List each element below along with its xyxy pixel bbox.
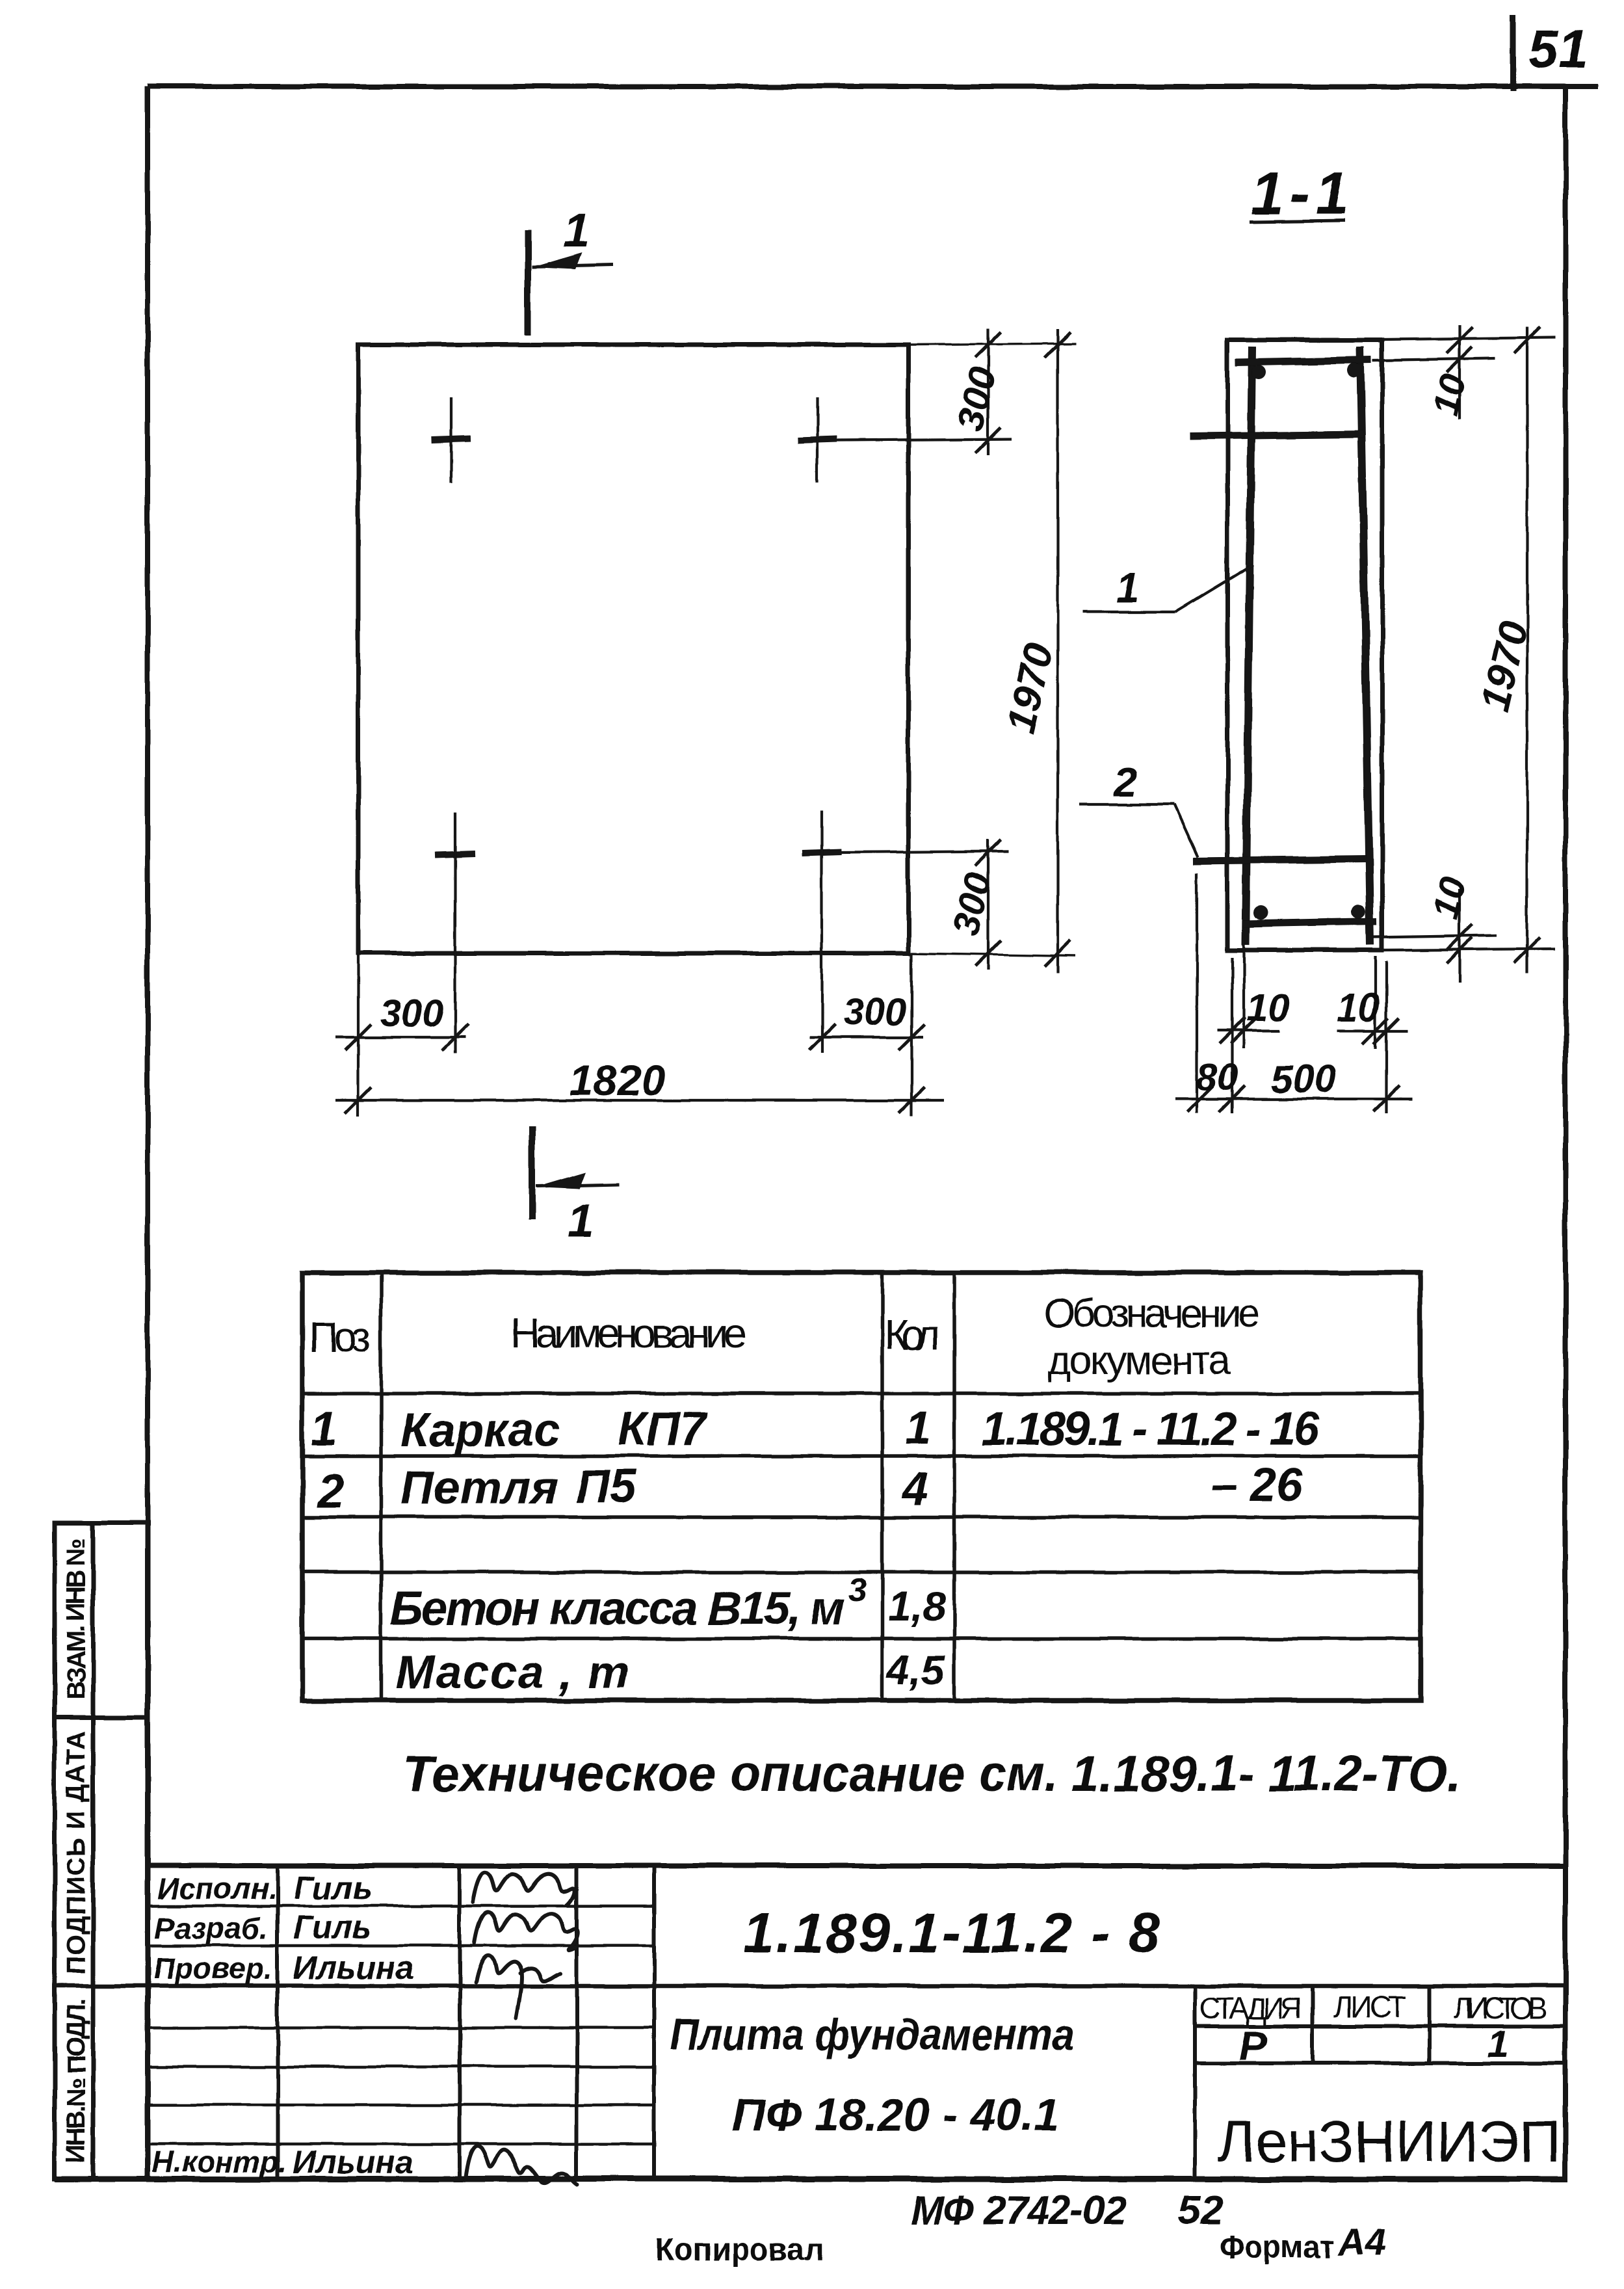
svg-text:Масса , m: Масса , m — [395, 1647, 629, 1699]
svg-text:ИНВ.№ ПОДЛ.: ИНВ.№ ПОДЛ. — [62, 1999, 90, 2163]
svg-text:1: 1 — [905, 1402, 931, 1454]
svg-text:Гиль: Гиль — [294, 1870, 372, 1906]
svg-text:Плита фундамента: Плита фундамента — [670, 2010, 1074, 2059]
svg-text:1.189.1-11.2 - 8: 1.189.1-11.2 - 8 — [743, 1902, 1159, 1965]
svg-text:1: 1 — [1487, 2023, 1508, 2065]
svg-text:1: 1 — [311, 1401, 337, 1455]
svg-text:500: 500 — [1271, 1057, 1336, 1101]
svg-text:Ильина: Ильина — [293, 2144, 413, 2180]
svg-text:1: 1 — [568, 1195, 594, 1247]
svg-text:П5: П5 — [576, 1461, 636, 1513]
svg-text:Разраб.: Разраб. — [155, 1911, 268, 1945]
svg-text:– 26: – 26 — [1211, 1459, 1303, 1511]
svg-text:4: 4 — [901, 1463, 928, 1515]
svg-text:10: 10 — [1337, 986, 1380, 1029]
svg-text:10: 10 — [1246, 986, 1290, 1029]
svg-text:Кол: Кол — [884, 1312, 940, 1358]
svg-text:51: 51 — [1528, 18, 1588, 79]
svg-text:ЛИСТОВ: ЛИСТОВ — [1454, 1991, 1548, 2025]
svg-text:Копировал: Копировал — [655, 2231, 824, 2268]
svg-text:Поз: Поз — [309, 1314, 371, 1360]
svg-text:ПОДПИСЬ И ДАТА: ПОДПИСЬ И ДАТА — [62, 1731, 90, 1975]
svg-text:СТАДИЯ: СТАДИЯ — [1199, 1991, 1302, 2025]
svg-text:1.189.1 - 11.2 - 16: 1.189.1 - 11.2 - 16 — [982, 1403, 1320, 1455]
svg-text:Н.контр.: Н.контр. — [152, 2145, 287, 2178]
svg-text:Провер.: Провер. — [153, 1952, 272, 1985]
svg-text:Формат: Формат — [1219, 2229, 1334, 2265]
svg-text:А4: А4 — [1337, 2221, 1386, 2264]
svg-text:52: 52 — [1178, 2188, 1223, 2233]
svg-text:Техническое описание см. 1.: Техническое описание см. 1.189.1- 11.2-Т… — [403, 1745, 1461, 1802]
svg-text:ПФ 18.20 - 40.1: ПФ 18.20 - 40.1 — [732, 2089, 1060, 2140]
svg-text:Каркас: Каркас — [400, 1405, 560, 1457]
svg-text:1,8: 1,8 — [888, 1583, 946, 1630]
svg-text:Петля: Петля — [400, 1462, 558, 1514]
svg-text:2: 2 — [316, 1464, 344, 1518]
svg-text:ВЗАМ. ИНВ №: ВЗАМ. ИНВ № — [62, 1537, 90, 1700]
svg-text:Р: Р — [1239, 2022, 1267, 2069]
svg-text:ЛенЗНИИЭП: ЛенЗНИИЭП — [1218, 2110, 1561, 2175]
svg-text:Обозначение: Обозначение — [1044, 1291, 1260, 1336]
svg-text:2: 2 — [1114, 758, 1138, 805]
svg-text:1820: 1820 — [570, 1056, 665, 1104]
svg-text:1 - 1: 1 - 1 — [1251, 161, 1348, 227]
svg-text:300: 300 — [380, 992, 443, 1035]
svg-text:Бетон класса В15, м: Бетон класса В15, м — [390, 1583, 845, 1635]
svg-text:документа: документа — [1048, 1338, 1231, 1383]
svg-text:КП7: КП7 — [618, 1403, 708, 1455]
svg-text:Исполн.: Исполн. — [157, 1872, 277, 1905]
svg-text:80: 80 — [1196, 1056, 1238, 1098]
svg-text:Ильина: Ильина — [293, 1950, 413, 1986]
svg-text:Наименование: Наименование — [510, 1310, 747, 1356]
svg-text:1: 1 — [563, 203, 590, 257]
svg-text:3: 3 — [848, 1572, 867, 1608]
svg-text:Гиль: Гиль — [294, 1909, 372, 1946]
svg-text:300: 300 — [843, 991, 906, 1033]
svg-text:1: 1 — [1116, 564, 1139, 611]
svg-text:ЛИСТ: ЛИСТ — [1333, 1990, 1406, 2024]
svg-text:4,5: 4,5 — [885, 1647, 945, 1693]
svg-text:МФ 2742-02: МФ 2742-02 — [910, 2188, 1127, 2233]
